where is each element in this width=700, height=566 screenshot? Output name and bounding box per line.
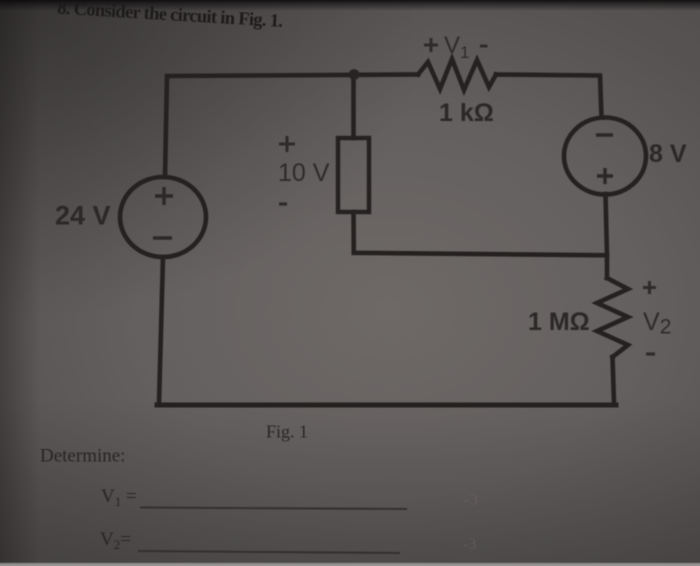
source V 24V circle bbox=[120, 177, 206, 257]
minus sign of 10V element bbox=[279, 202, 287, 205]
source V 8V circle bbox=[564, 118, 646, 195]
plus sign inside 8V source bbox=[597, 168, 613, 184]
svg-text:V1: V1 bbox=[444, 32, 469, 62]
wire 8V to junction bbox=[606, 194, 608, 278]
plus sign inside 24V source bbox=[155, 187, 173, 205]
svg-text:10 V: 10 V bbox=[278, 159, 330, 187]
wire resistor R2 to bottom bbox=[613, 357, 615, 403]
svg-text:V2=: V2= bbox=[100, 529, 131, 552]
svg-text:1 MΩ: 1 MΩ bbox=[528, 308, 590, 336]
wire middle branch top bbox=[351, 77, 356, 138]
svg-text:Determine:: Determine: bbox=[40, 446, 125, 467]
svg-text:8. Consider the circuit in Fig: 8. Consider the circuit in Fig. 1. bbox=[57, 0, 284, 32]
answer line 2 bbox=[138, 551, 400, 553]
svg-text:Fig. 1: Fig. 1 bbox=[266, 422, 308, 442]
plus sign of V2 bbox=[643, 281, 656, 294]
plus sign of 10V element bbox=[279, 136, 295, 152]
resistor R2 bbox=[597, 278, 628, 357]
svg-text:V1 =: V1 = bbox=[101, 486, 137, 509]
svg-text:-3: -3 bbox=[464, 490, 478, 509]
wire left top side bbox=[165, 75, 418, 178]
svg-text:8 V: 8 V bbox=[649, 140, 687, 168]
bottom wire bbox=[157, 403, 616, 408]
answer line 1 bbox=[140, 508, 407, 510]
wire top right bbox=[496, 75, 602, 118]
minus sign inside 8V source bbox=[596, 133, 613, 136]
label + V1 - above R1 bbox=[424, 38, 488, 52]
wire 8V top bbox=[602, 115, 604, 120]
minus sign of V2 bbox=[646, 352, 655, 355]
resistor R1 bbox=[418, 59, 496, 90]
minus sign inside 24V source bbox=[153, 236, 172, 240]
svg-text:V2: V2 bbox=[643, 308, 671, 339]
svg-text:-3: -3 bbox=[463, 536, 476, 553]
element E1 10V rectangle bbox=[338, 138, 369, 212]
svg-text:1 kΩ: 1 kΩ bbox=[439, 99, 494, 127]
svg-text:24 V: 24 V bbox=[55, 201, 111, 231]
wire middle branch bottom bbox=[354, 212, 608, 255]
node A junction dot bbox=[349, 69, 360, 80]
wire left bottom side bbox=[159, 257, 163, 403]
